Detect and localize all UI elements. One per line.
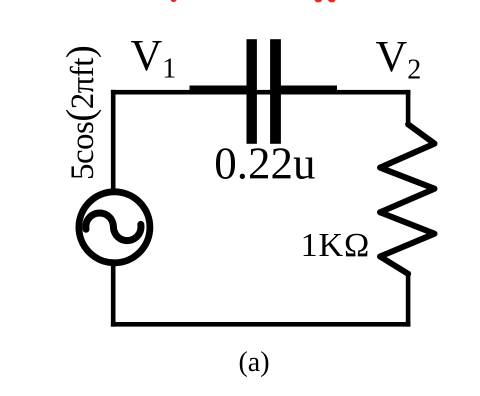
red text fragment (cut-off glyph bottom, round dot): [171, 0, 177, 2]
red text fragment (cut-off glyph bottom, right stem): [328, 0, 336, 2]
capacitor C1 left plate: [247, 39, 257, 144]
svg-text:V1: V1: [131, 31, 177, 85]
svg-text:0.22u: 0.22u: [214, 139, 315, 189]
svg-text:1KΩ: 1KΩ: [301, 227, 371, 264]
AC source sine symbol: [86, 213, 141, 241]
red text fragment (cut-off glyph bottom, left stem): [314, 0, 322, 2]
resistor R1 zigzag: [380, 124, 435, 273]
wire: left vertical upper segment: [111, 90, 116, 191]
svg-text:5cos(2πft): 5cos(2πft): [59, 46, 102, 180]
capacitor C1 left lead (thick): [190, 86, 248, 94]
wire: left vertical lower segment: [111, 264, 116, 327]
capacitor C1 right lead (thick): [281, 86, 338, 94]
wire: right vertical upper segment: [406, 90, 411, 127]
wire: bottom horizontal: [111, 322, 411, 327]
svg-text:(a): (a): [238, 347, 269, 378]
wire: top horizontal (node V1 to node V2): [111, 90, 411, 95]
wire: right vertical lower segment: [406, 272, 411, 327]
capacitor C1 right plate: [270, 39, 281, 144]
AC source V (circle): [79, 192, 150, 263]
svg-text:V2: V2: [376, 32, 422, 86]
